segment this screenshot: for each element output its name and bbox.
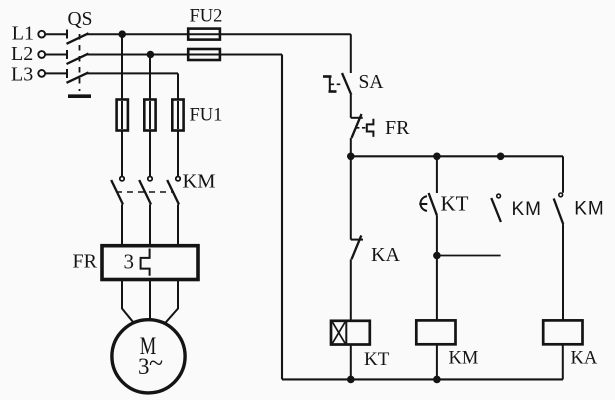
svg-text:KM: KM <box>574 199 605 220</box>
svg-text:KM: KM <box>183 170 216 192</box>
svg-text:3: 3 <box>138 354 150 379</box>
svg-text:SA: SA <box>359 72 384 93</box>
svg-text:FR: FR <box>385 117 410 139</box>
svg-text:FU1: FU1 <box>190 106 223 126</box>
svg-text:QS: QS <box>68 9 93 30</box>
svg-text:KT: KT <box>364 349 390 370</box>
svg-text:L2: L2 <box>11 43 33 65</box>
svg-text:KA: KA <box>571 349 598 369</box>
svg-text:~: ~ <box>149 349 163 378</box>
svg-text:L3: L3 <box>11 64 33 86</box>
svg-text:KM: KM <box>512 199 543 220</box>
svg-text:KM: KM <box>449 349 479 369</box>
svg-text:KT: KT <box>441 192 469 216</box>
svg-text:FU2: FU2 <box>190 7 223 27</box>
svg-text:FR: FR <box>73 251 98 273</box>
svg-text:L1: L1 <box>12 23 34 45</box>
svg-text:3: 3 <box>124 250 135 274</box>
svg-text:KA: KA <box>371 244 400 266</box>
